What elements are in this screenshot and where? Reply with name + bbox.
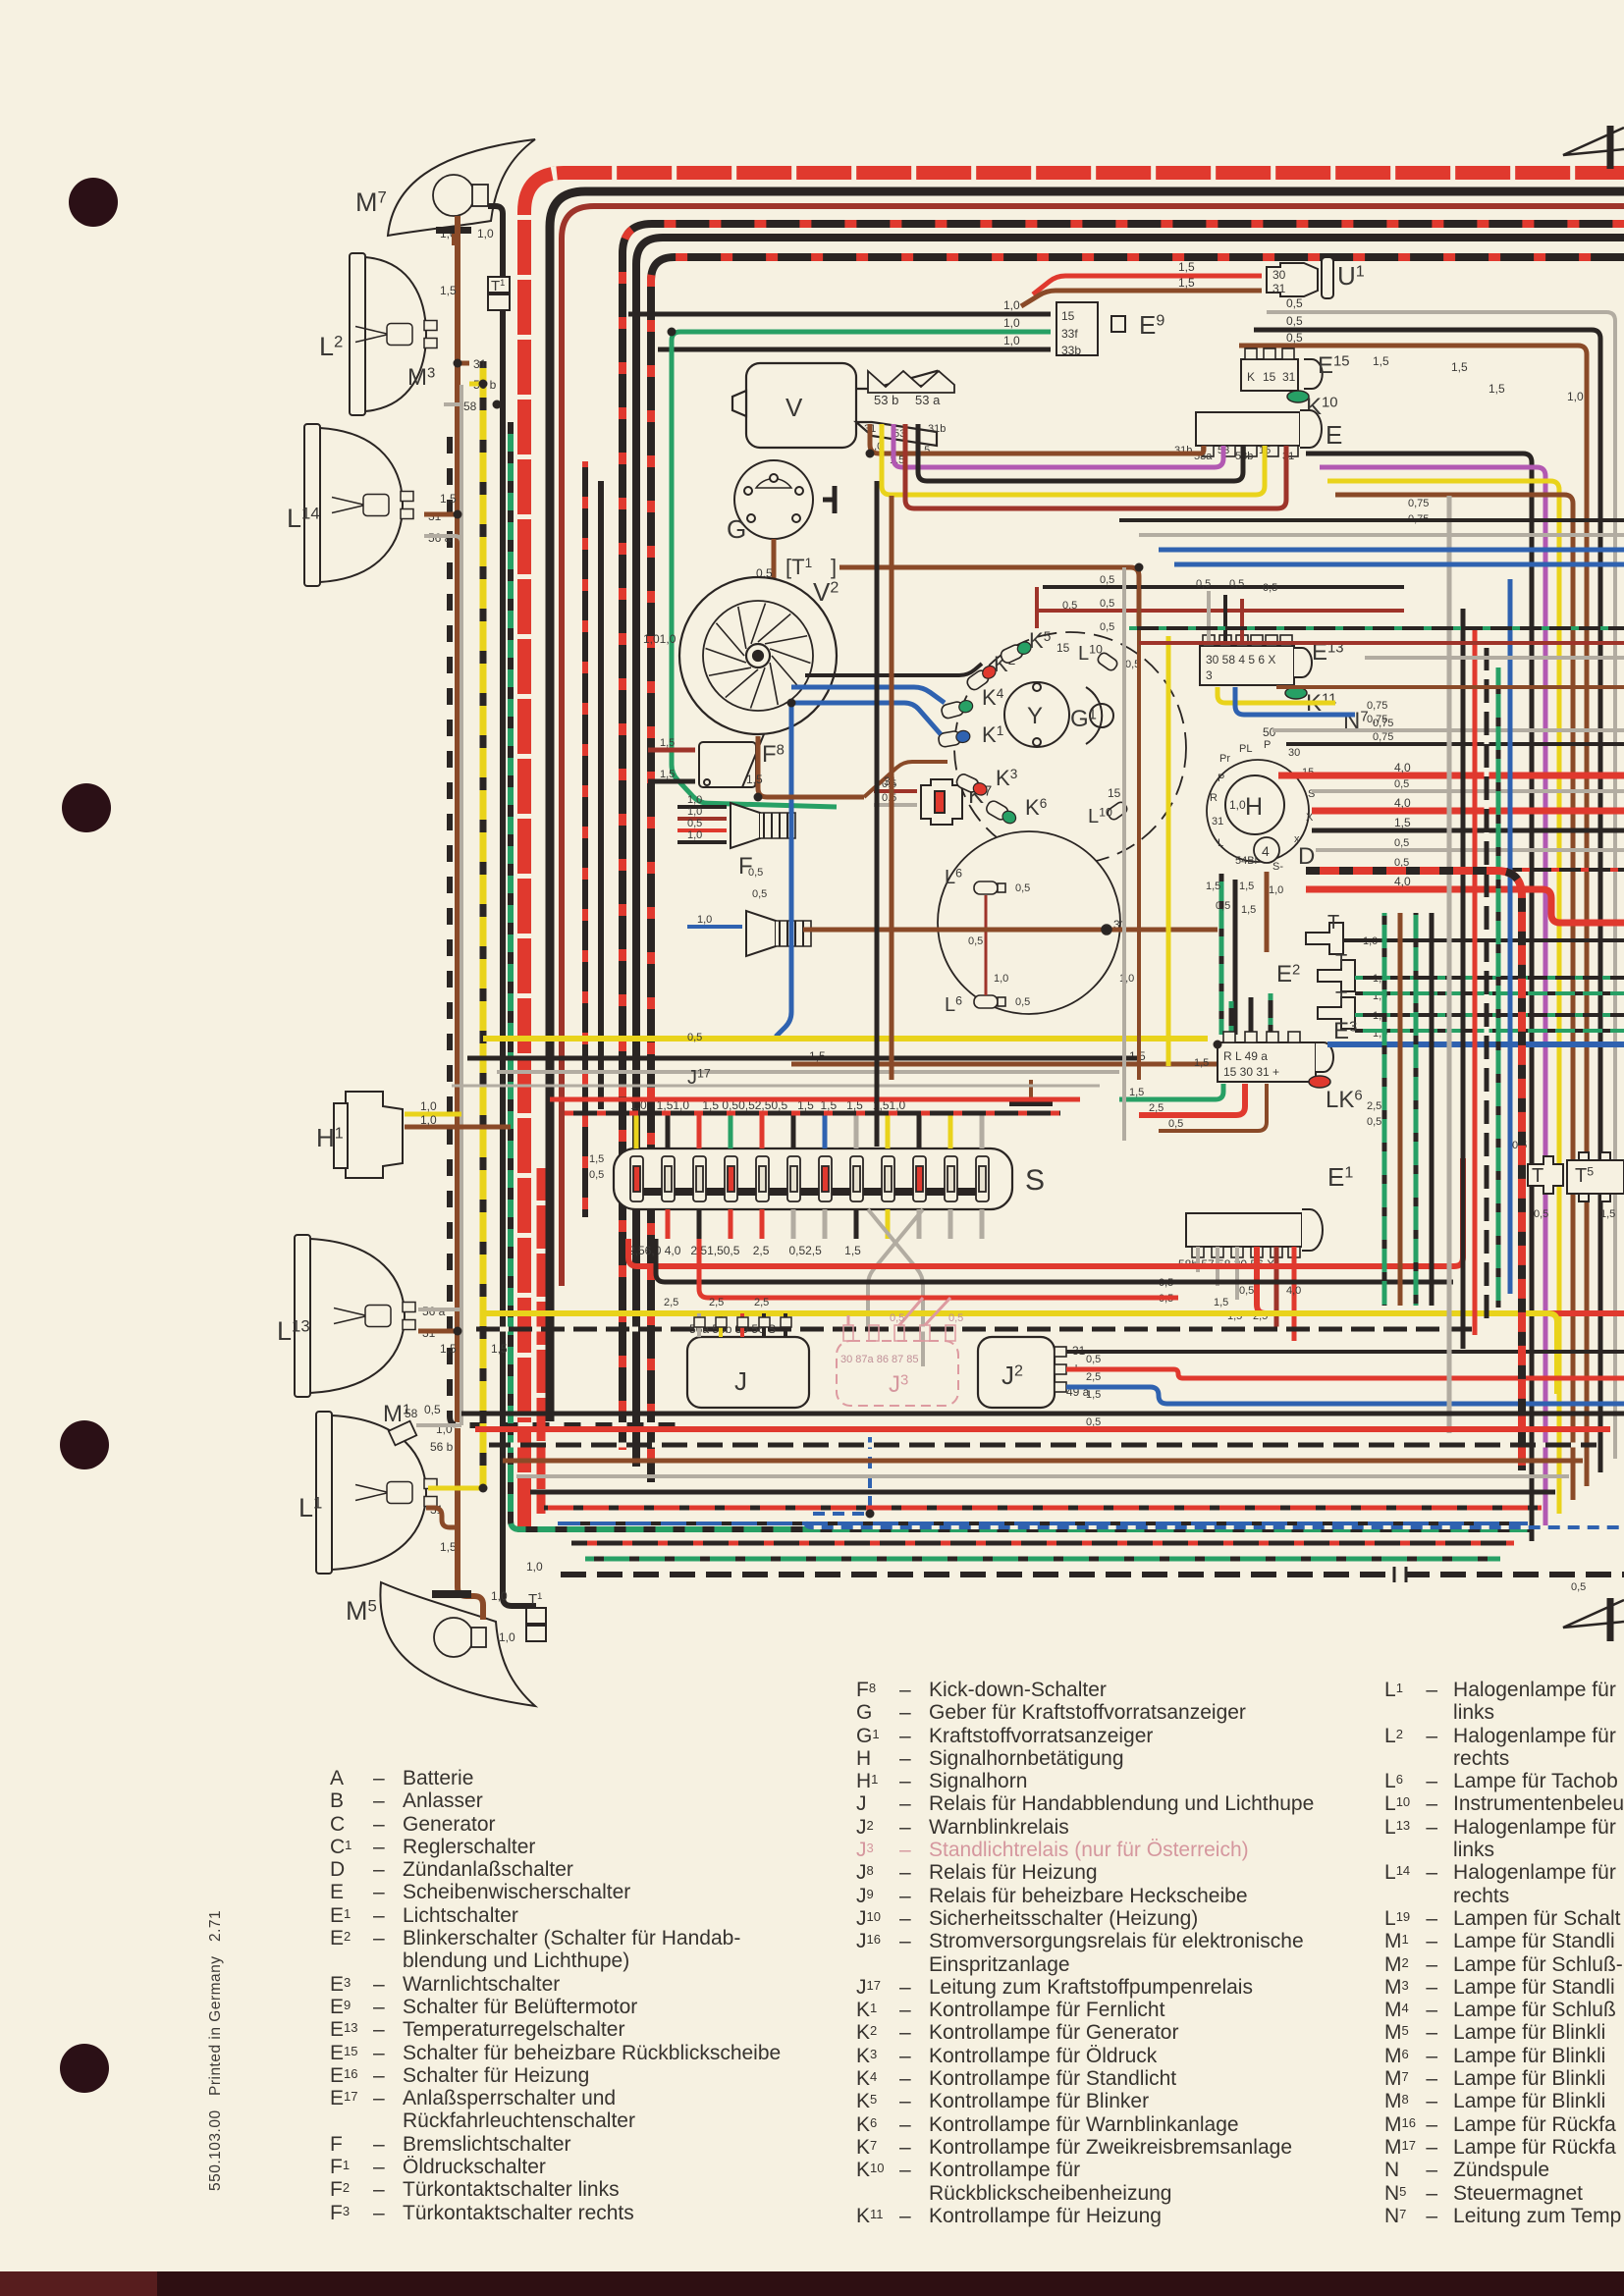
lamp L10 bottom <box>1106 800 1128 821</box>
label L1 31 <box>430 1503 444 1517</box>
wire wire L14 31 brown <box>424 512 458 517</box>
wire wire cluster brown 31 <box>864 762 947 797</box>
wire wire right h 075a <box>1272 728 1624 732</box>
svg-text:1,5: 1,5 <box>660 769 675 780</box>
svg-text:0,5: 0,5 <box>752 888 767 900</box>
wire bundle uf black <box>467 1056 1139 1061</box>
label 0,5 ct1 <box>1100 574 1114 586</box>
label 2,5 j2b <box>1086 1371 1101 1383</box>
label G1 <box>1070 706 1097 732</box>
wire fuse stub bottom 8 <box>886 1209 891 1239</box>
svg-text:G: G <box>727 514 746 544</box>
wire relay J3 wire 30 <box>847 1315 850 1325</box>
wire right vertical 3 <box>1496 667 1501 1308</box>
wire wire e2 t4 <box>1355 1013 1624 1017</box>
wire relay J pin 3 <box>762 1313 766 1337</box>
wire fuse stub bottom 7 <box>854 1209 859 1239</box>
svg-text:0,5: 0,5 <box>948 1312 963 1324</box>
wire wire E13 f1 <box>1207 591 1211 642</box>
label 1,0 e2c <box>1373 990 1387 1002</box>
label T1 top <box>491 278 505 294</box>
label 0,5 f1b <box>752 888 767 900</box>
lamp K7 <box>921 779 962 825</box>
lighter U1 <box>1267 257 1333 298</box>
label J pins <box>689 1322 776 1336</box>
terminal H R <box>1210 792 1218 804</box>
wire wire mid h red1 <box>1139 641 1624 645</box>
label 1,0 a <box>1003 298 1020 312</box>
wire wire e1 d6 <box>1292 1247 1297 1341</box>
label V pin31b <box>928 423 946 435</box>
wire bottom bus 1 <box>475 1426 1610 1432</box>
headlamp L1 <box>316 1412 437 1574</box>
wire fuse stub bottom 2 <box>697 1209 702 1239</box>
wire bundle uf white <box>452 1085 1100 1088</box>
label E 31b <box>1174 445 1192 456</box>
label 1,5 l13b <box>491 1342 508 1356</box>
label V pin31 <box>864 423 876 435</box>
junction dot <box>454 359 462 368</box>
label 1,5 e1c <box>1214 1297 1228 1308</box>
svg-text:T: T <box>1532 1165 1543 1187</box>
fuse 3 <box>693 1156 706 1201</box>
label E13 pins <box>1206 653 1275 667</box>
svg-text:L10: L10 <box>1088 806 1112 828</box>
label 0,5 e1b <box>1159 1293 1173 1305</box>
label 53b <box>874 393 898 407</box>
terminal H X <box>1306 812 1314 824</box>
wire wire rear black <box>1306 454 1532 1541</box>
label J2 <box>1001 1361 1023 1390</box>
wire wire M7 black drop <box>488 206 536 1606</box>
label Y <box>1027 703 1043 729</box>
label 1,0 fb <box>687 806 702 818</box>
svg-text:E15: E15 <box>1318 352 1350 379</box>
wire wire gray left <box>460 385 463 1425</box>
junction dot <box>866 450 875 458</box>
svg-text:30 58 4 5 6 X: 30 58 4 5 6 X <box>1206 653 1275 667</box>
relay J3 tab 2 <box>894 1325 904 1341</box>
wire relay J pin 0 <box>697 1313 701 1337</box>
wire right vertical 0 <box>1461 609 1466 1349</box>
fuse 9 <box>882 1156 894 1201</box>
svg-text:1,0: 1,0 <box>1269 884 1283 896</box>
wire right vertical 2 <box>1485 648 1489 1321</box>
label 1,5 f8a <box>660 737 675 749</box>
label 4,0 rh5 <box>1394 796 1411 810</box>
label T e2c <box>1335 988 1347 1010</box>
label 2,5 j1 <box>664 1297 678 1308</box>
label 1,5 l1 <box>440 1540 457 1554</box>
lamp K10 <box>1287 391 1309 402</box>
svg-text:56 b: 56 b <box>430 1440 454 1454</box>
svg-text:0,5: 0,5 <box>1286 314 1303 328</box>
label 1,0 m5b <box>499 1630 515 1644</box>
label 0,5 rh4 <box>1394 778 1409 790</box>
wire wire F 1 <box>677 805 727 809</box>
label 0,5 e1d <box>1239 1285 1254 1297</box>
wire wire cluster 05 a <box>1043 585 1404 589</box>
label 0,5 j3a <box>890 1312 904 1324</box>
wire wire L2 56b yellow <box>469 373 483 384</box>
wire wire L6 link <box>985 895 988 995</box>
fuse 4 <box>725 1156 737 1201</box>
label 1,5 u1b <box>1178 276 1195 290</box>
label 1,0 h3 <box>1269 884 1283 896</box>
svg-text:30 87a 86 87 85: 30 87a 86 87 85 <box>840 1354 919 1365</box>
gauge G1 <box>1086 687 1113 744</box>
label E 53b <box>1235 451 1253 462</box>
fuse bus 5 <box>800 1188 820 1196</box>
wire bus 30 red/white <box>524 173 1624 1537</box>
label E9 33f <box>1061 327 1078 341</box>
label H <box>1245 793 1263 821</box>
label K3 <box>996 766 1017 790</box>
label 1,5 j2c <box>1086 1389 1101 1401</box>
wire wire E13 out blue <box>1235 687 1355 715</box>
label E1 <box>1327 1162 1353 1192</box>
terminal H P <box>1264 739 1271 751</box>
label 0,5 ct2 <box>1100 598 1114 610</box>
svg-text:E3: E3 <box>1333 1018 1357 1044</box>
svg-text:4,0: 4,0 <box>1394 761 1411 774</box>
wire wire e3 red 25 <box>1139 1084 1245 1115</box>
label 1,5 rh6 <box>1394 816 1411 829</box>
label 53a <box>915 393 941 407</box>
terminal H x <box>1294 833 1300 845</box>
label 0,5 l6b <box>1015 996 1030 1008</box>
wire wire black mid2 <box>598 481 604 1109</box>
connector T1 bottom <box>526 1608 546 1641</box>
fuse 11 <box>945 1156 957 1201</box>
label L2 pin58 <box>463 400 477 413</box>
arrow bottom right <box>1563 1598 1624 1641</box>
svg-text:2,5: 2,5 <box>1367 1100 1381 1112</box>
wire wire e1 d3 <box>1235 1247 1239 1300</box>
junction dot <box>866 1510 875 1519</box>
wire wire green/black left <box>511 422 1532 1529</box>
svg-text:U1: U1 <box>1337 261 1365 291</box>
svg-text:Y: Y <box>1027 703 1043 729</box>
fuse 1 <box>630 1156 643 1201</box>
label U1 30 <box>1272 268 1286 282</box>
svg-text:1,5: 1,5 <box>440 1342 457 1356</box>
wire fuse stub bottom 3 <box>729 1209 733 1239</box>
junction dot <box>454 1327 462 1336</box>
wire wire L14 56a gray <box>424 536 461 550</box>
label E13 3 <box>1206 668 1213 682</box>
svg-text:V: V <box>785 393 803 422</box>
svg-text:E1: E1 <box>1327 1162 1353 1192</box>
wire wire wiper purple <box>893 424 1223 467</box>
wire wire E15 gray rv1 <box>1267 312 1615 1459</box>
svg-text:1,0: 1,0 <box>687 794 702 806</box>
label 1,0 m1 <box>436 1422 453 1436</box>
junction dot <box>754 793 763 802</box>
wire wire blue dashed long <box>805 1514 1624 1527</box>
wire wire right 05 <box>1312 789 1624 793</box>
label D <box>1298 843 1315 870</box>
svg-text:0,5: 0,5 <box>1229 578 1244 590</box>
svg-text:33f: 33f <box>1061 327 1078 341</box>
label x1,0x <box>1229 798 1246 812</box>
label 0,5 e15b <box>1286 314 1303 328</box>
wire wire K7 b <box>874 803 917 807</box>
svg-text:1,0: 1,0 <box>687 806 702 818</box>
wire fuse stub bottom 4 <box>760 1209 765 1239</box>
label J2 31 <box>1072 1344 1086 1358</box>
fuse bus 4 <box>769 1188 788 1196</box>
label 1,5 h1 <box>1206 881 1220 892</box>
wire wire e1 d5 <box>1274 1247 1279 1327</box>
wire wire rear purple <box>1320 467 1545 1527</box>
speedometer dial <box>938 831 1120 1014</box>
wire bus black t5 <box>636 238 1624 1467</box>
label U1 31 <box>1272 282 1286 295</box>
label 0,75 rh1 <box>1373 718 1393 729</box>
svg-text:1,0: 1,0 <box>697 914 712 926</box>
svg-text:0,5: 0,5 <box>1100 621 1114 633</box>
label E3 pins <box>1223 1049 1268 1063</box>
relay J tab 2 <box>737 1317 748 1327</box>
wire relay J2 out + <box>1066 1369 1624 1378</box>
svg-text:1,5: 1,5 <box>1214 1297 1228 1308</box>
wire wire M1 58 gray <box>416 1423 461 1427</box>
sender G <box>734 460 813 539</box>
lamp M7 bulb <box>433 175 488 216</box>
wire wire right red 40c <box>1306 889 1624 923</box>
label 0,5 e13b <box>1229 578 1244 590</box>
wire wire M5 brown feed <box>458 1536 483 1620</box>
label 0,5 m1 <box>424 1403 441 1416</box>
wire wire e3 brown <box>1159 1084 1267 1131</box>
label T5 <box>1575 1165 1594 1187</box>
svg-text:1,5: 1,5 <box>660 737 675 749</box>
lamp K5a <box>1000 639 1034 665</box>
label T1 bottom <box>528 1591 542 1608</box>
wire wire right 05b <box>1316 848 1624 852</box>
svg-text:1,0: 1,0 <box>1003 334 1020 347</box>
wire bundle uf blkred <box>565 1111 1060 1116</box>
label ]T1 close <box>831 555 837 579</box>
svg-text:0,5: 0,5 <box>968 935 983 947</box>
svg-text:T: T <box>1335 951 1347 973</box>
svg-text:E2: E2 <box>1276 961 1300 988</box>
wire relay J2 out 31 <box>1066 1350 1624 1354</box>
wire wire 31 to U1 brown <box>1021 291 1262 306</box>
svg-text:30: 30 <box>1272 268 1286 282</box>
label 1,0 m7b <box>477 227 494 240</box>
svg-text:0,5: 0,5 <box>424 1403 441 1416</box>
svg-text:0,5: 0,5 <box>1239 1285 1254 1297</box>
svg-text:1,0: 1,0 <box>1229 798 1246 812</box>
wire wire H1 a <box>405 1112 461 1117</box>
label 1,5 wp1 <box>1373 354 1389 368</box>
wire bottom bus 9 <box>585 1557 1500 1562</box>
wire fuse stub top 11 <box>980 1115 985 1148</box>
svg-text:1,5: 1,5 <box>1129 1087 1144 1098</box>
wire fuse stub top 5 <box>791 1115 796 1148</box>
svg-text:58: 58 <box>463 400 477 413</box>
wire wire M7 ground stub <box>452 234 456 245</box>
label F <box>738 853 753 880</box>
svg-text:E9: E9 <box>1139 310 1164 340</box>
svg-text:0,75: 0,75 <box>1373 731 1393 743</box>
relay J tab 4 <box>781 1317 791 1327</box>
svg-text:J: J <box>734 1366 747 1396</box>
svg-text:R: R <box>1210 792 1218 804</box>
svg-text:T: T <box>1335 988 1347 1010</box>
label E3 pins2 <box>1223 1065 1279 1079</box>
label 1,5 e2f <box>1194 1057 1209 1069</box>
svg-text:1,0: 1,0 <box>687 829 702 841</box>
label L10 top <box>1078 643 1103 665</box>
svg-text:1,0: 1,0 <box>526 1560 543 1574</box>
wire wire mid h gray1 <box>1139 533 1624 537</box>
wire wire brown main left <box>455 211 460 1536</box>
svg-text:G1: G1 <box>1070 706 1097 732</box>
wire wire mid h black1 <box>1119 518 1624 522</box>
wire wire F8 b <box>648 779 695 784</box>
fuse bus 9 <box>926 1188 946 1196</box>
fan V2 <box>679 577 837 734</box>
svg-text:0,5: 0,5 <box>1286 331 1303 345</box>
label K1 <box>982 722 1003 747</box>
label T e2b <box>1335 951 1347 973</box>
connector T5 <box>1567 1152 1624 1201</box>
wire wire E15 black rv2 <box>1254 330 1600 1472</box>
label 1,0 1,0 fan <box>643 632 677 646</box>
wire relay J3 wire 87 <box>925 1298 950 1325</box>
label 0,5 j2d <box>1086 1416 1101 1428</box>
lamp K11 <box>1285 687 1307 699</box>
terminal H Pr <box>1219 753 1230 765</box>
wire wire red/white left2 <box>537 1168 546 1514</box>
wire bundle bf red1 <box>628 1158 1463 1266</box>
label L14 pin56a <box>428 531 452 545</box>
label 0,5 k7a <box>882 778 896 790</box>
label G <box>727 514 746 544</box>
svg-text:L6: L6 <box>945 994 962 1016</box>
wire wire F 3 <box>677 828 727 832</box>
relay J <box>687 1337 809 1408</box>
label 0,75 e13d <box>1367 700 1387 712</box>
wire wire cluster blue 2 <box>791 703 941 734</box>
svg-text:0,5: 0,5 <box>687 818 702 829</box>
label 1,0 v <box>868 441 883 453</box>
svg-text:0,5: 0,5 <box>890 1312 904 1324</box>
label 1,0 c <box>1003 334 1020 347</box>
svg-text:1,5: 1,5 <box>1178 276 1195 290</box>
label 4 <box>1262 843 1270 859</box>
wire wire rear yellow <box>1327 481 1559 1514</box>
label 15 bottom <box>1108 786 1121 800</box>
label N7 <box>1343 708 1369 734</box>
label 0,5 e3c <box>1168 1118 1183 1130</box>
switch E <box>1196 412 1300 456</box>
svg-text:0,5: 0,5 <box>748 867 763 879</box>
wire wire clock black v1 <box>1233 880 1238 1035</box>
svg-text:K: K <box>1247 370 1255 384</box>
svg-text:T: T <box>1327 912 1339 934</box>
headlamp L14 <box>304 424 413 586</box>
wire wire mid h blkgrn <box>1129 626 1624 630</box>
wire wire x cross 2 <box>868 1209 923 1327</box>
svg-text:1,5: 1,5 <box>1239 881 1254 892</box>
svg-text:1,0: 1,0 <box>420 1099 437 1113</box>
label 31 speedo <box>1113 918 1127 932</box>
wire wire speedo gnd <box>1029 1080 1033 1097</box>
lamp L6 top <box>974 881 1005 894</box>
wire wire 30 to U1 red <box>1033 276 1262 294</box>
svg-text:S: S <box>1025 1164 1045 1197</box>
ground bar M5 <box>432 1590 471 1598</box>
wire wire E13 out yellow <box>1218 687 1335 703</box>
label 1,0 e2e <box>1373 1028 1387 1040</box>
label 0,75 r1 <box>1408 498 1429 509</box>
label 1,0 fd <box>687 829 702 841</box>
label K5b <box>1025 795 1047 820</box>
label 1,5 cl <box>746 773 763 786</box>
wire wire rear brown <box>1335 495 1573 1500</box>
horn H1 <box>334 1092 403 1178</box>
label E15 15 <box>1263 370 1276 384</box>
wire wire e1 d1 <box>1196 1247 1200 1272</box>
label 4,0 rh3 <box>1394 761 1411 774</box>
wire relay J pin 2 <box>740 1313 744 1337</box>
svg-text:0,5: 0,5 <box>1168 1118 1183 1130</box>
label V <box>785 393 803 422</box>
label 1,5 fs1 <box>589 1153 604 1165</box>
wire wire x cross 1 <box>868 1209 923 1366</box>
label E9 15 <box>1061 309 1075 323</box>
svg-text:2,5: 2,5 <box>1086 1371 1101 1383</box>
wire fuse stub bottom 6 <box>823 1209 828 1239</box>
relay J3 tab 0 <box>843 1325 853 1341</box>
label 0,5 j2a <box>1086 1354 1101 1365</box>
svg-text:Pr: Pr <box>1219 753 1230 765</box>
junction dot <box>1103 926 1111 934</box>
wire wire mid v gray1 <box>1122 567 1126 1141</box>
label 1,5 e1f <box>1227 1310 1242 1322</box>
svg-text:J3: J3 <box>889 1371 908 1398</box>
svg-text:2,5: 2,5 <box>1149 1102 1164 1114</box>
wire wire mid h gray2 <box>1365 656 1624 660</box>
wire wire cluster blue v <box>776 703 791 1037</box>
label L2 pin56b <box>473 378 497 392</box>
wire bundle bf black <box>656 1239 1453 1282</box>
label F8 <box>762 741 785 768</box>
lamp K5b <box>985 799 1019 827</box>
wire wire cluster 05 b <box>1037 609 1404 613</box>
svg-text:1,5: 1,5 <box>440 1540 457 1554</box>
svg-text:2,5: 2,5 <box>664 1297 678 1308</box>
punch hole 3 <box>60 1420 109 1469</box>
label 0,5 cl3 <box>748 867 763 879</box>
connector T1 top <box>488 277 510 310</box>
label 0,75 rh2 <box>1373 731 1393 743</box>
label 0,5 t4b <box>1534 1208 1548 1220</box>
lamp K4 <box>941 698 975 720</box>
svg-text:1,5: 1,5 <box>1086 1389 1101 1401</box>
label 1,5 u1a <box>1178 260 1195 274</box>
wire wire cluster blue 1 <box>791 687 945 703</box>
terminal H 54Bl <box>1235 855 1257 867</box>
wire wire mid h blue1 <box>1159 548 1624 553</box>
wire wire brown bus h <box>791 1062 1218 1067</box>
terminal H L <box>1218 837 1223 849</box>
wire fuse stub bottom 5 <box>791 1209 796 1239</box>
